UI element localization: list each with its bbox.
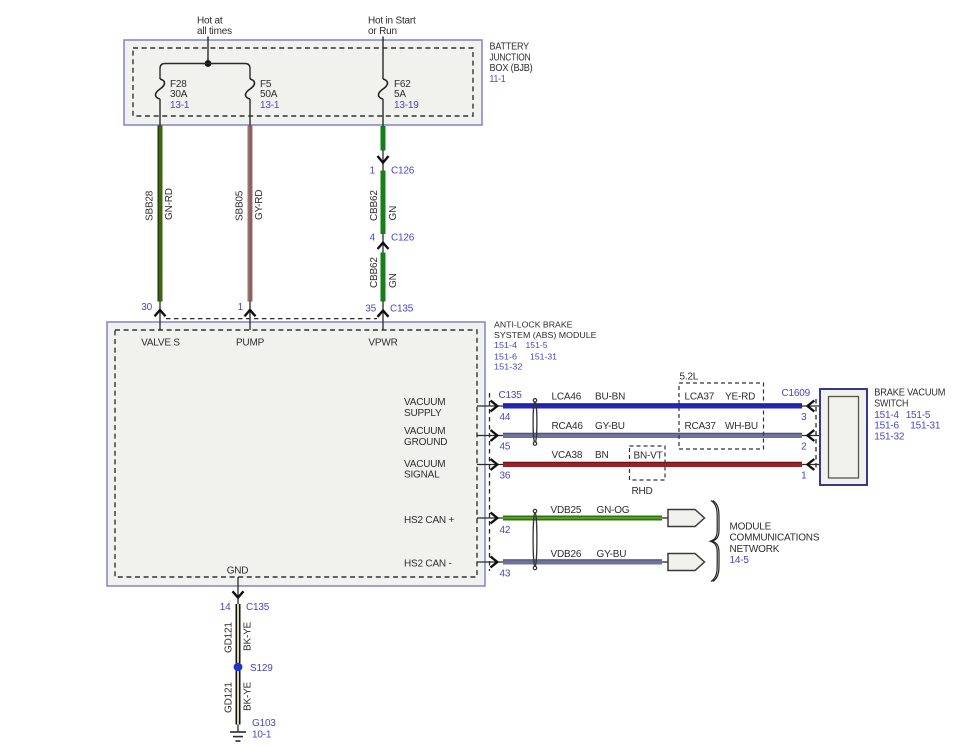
svg-text:BK-YE: BK-YE <box>243 621 254 651</box>
SECTION: top feeds <box>107 16 597 587</box>
wire fuse F62 output <box>382 99 384 126</box>
svg-text:43: 43 <box>500 569 511 580</box>
svg-text:42: 42 <box>500 525 511 536</box>
wire VDB25 GN-OG <box>503 505 662 518</box>
SECTION: brake vacuum switch <box>782 388 946 486</box>
wire GD121 BK-YE upper segment <box>224 604 254 663</box>
wire CBB62 GN middle segment <box>369 171 399 235</box>
svg-text:BU-BN: BU-BN <box>595 392 625 403</box>
svg-text:HS2 CAN -: HS2 CAN - <box>404 559 452 570</box>
svg-text:PUMP: PUMP <box>236 338 265 349</box>
svg-text:10-1: 10-1 <box>252 730 272 741</box>
svg-text:13-1: 13-1 <box>260 100 280 111</box>
pin label VACUUM SIGNAL <box>404 459 445 481</box>
svg-text:151-4: 151-4 <box>494 341 518 350</box>
svg-text:151-4: 151-4 <box>874 410 899 421</box>
svg-text:4: 4 <box>370 233 376 244</box>
svg-text:YE-RD: YE-RD <box>725 392 755 403</box>
fuse F28 <box>155 79 189 111</box>
svg-text:LCA37: LCA37 <box>685 392 715 403</box>
svg-text:BN-VT: BN-VT <box>634 450 663 461</box>
wire CBB62 GN upper segment <box>381 126 386 151</box>
box ANTI-LOCK BRAKE SYSTEM (ABS) MODULE <box>107 322 485 586</box>
ground G103 <box>230 718 276 741</box>
SECTION: ABS module <box>107 16 597 587</box>
svg-text:3: 3 <box>801 412 807 423</box>
svg-text:GN-RD: GN-RD <box>164 188 175 220</box>
svg-text:HS2 CAN +: HS2 CAN + <box>404 515 455 526</box>
pin 3 arrow into switch <box>801 401 828 424</box>
svg-text:SBB28: SBB28 <box>145 190 156 221</box>
pin 14 arrow out of ABS module C135 <box>220 577 270 613</box>
svg-text:GD121: GD121 <box>224 682 235 713</box>
svg-text:VACUUM: VACUUM <box>404 426 445 437</box>
wire SBB05 GY-RD <box>235 126 266 302</box>
svg-text:5.2L: 5.2L <box>680 372 699 383</box>
pin 43 arrow out of ABS module <box>477 557 511 580</box>
svg-text:Hot in Start: Hot in Start <box>368 16 416 27</box>
svg-text:151-5: 151-5 <box>906 410 931 421</box>
svg-text:151-31: 151-31 <box>530 352 558 361</box>
svg-text:GN: GN <box>388 273 399 288</box>
svg-text:BN: BN <box>595 450 609 461</box>
svg-text:CBB62: CBB62 <box>369 190 380 221</box>
svg-text:C1609: C1609 <box>782 388 811 399</box>
svg-text:all times: all times <box>197 26 232 37</box>
wire fuse F28 output <box>159 99 161 126</box>
SECTION: ground path <box>220 577 277 741</box>
fuse F62 <box>378 79 419 111</box>
svg-text:C126: C126 <box>391 166 415 177</box>
svg-text:151-32: 151-32 <box>874 432 905 443</box>
wire VDB26 GY-BU <box>503 549 662 562</box>
svg-text:GY-RD: GY-RD <box>254 190 265 220</box>
label Hot at all times <box>197 16 232 38</box>
SECTION: vertical wires <box>145 16 417 302</box>
pin label VACUUM GROUND <box>404 426 447 448</box>
twisted pair loop VDB25/VDB26 <box>533 509 537 569</box>
svg-text:COMMUNICATIONS: COMMUNICATIONS <box>730 533 820 544</box>
pin 42 arrow out of ABS module <box>477 513 511 537</box>
svg-text:36: 36 <box>500 471 511 482</box>
svg-text:30A: 30A <box>170 89 188 100</box>
svg-text:VALVE S: VALVE S <box>141 338 180 349</box>
svg-text:1: 1 <box>238 302 244 313</box>
node junction dot <box>205 60 212 67</box>
svg-text:GN-OG: GN-OG <box>597 505 630 516</box>
svg-text:45: 45 <box>500 442 511 453</box>
svg-text:VCA38: VCA38 <box>552 450 583 461</box>
fuse F5 <box>245 79 279 111</box>
svg-text:1: 1 <box>370 166 376 177</box>
box BRAKE VACUUM SWITCH <box>820 389 867 485</box>
svg-text:GN: GN <box>388 206 399 221</box>
svg-text:VACUUM: VACUUM <box>404 459 445 470</box>
svg-text:50A: 50A <box>260 89 278 100</box>
svg-text:GND: GND <box>227 566 249 577</box>
svg-text:NETWORK: NETWORK <box>730 544 780 555</box>
pin 35 arrow into ABS module C135 <box>365 301 413 330</box>
box 5.2L alternate wires <box>679 372 764 449</box>
box BN-VT alternate wire RHD <box>630 446 666 497</box>
svg-text:151-6: 151-6 <box>494 352 518 361</box>
wire bus to fuses F28 and F5 <box>160 64 250 80</box>
svg-text:VPWR: VPWR <box>368 338 397 349</box>
svg-text:151-31: 151-31 <box>910 421 941 432</box>
svg-text:SYSTEM (ABS) MODULE: SYSTEM (ABS) MODULE <box>494 331 597 340</box>
pin 36 arrow out of ABS module <box>477 459 511 482</box>
svg-text:GD121: GD121 <box>224 622 235 653</box>
connector C135 top pins dashed line <box>166 318 377 320</box>
off-page connector HS2 CAN + <box>662 510 705 527</box>
svg-text:SWITCH: SWITCH <box>874 398 908 409</box>
connector C1609 dashed line <box>815 399 817 471</box>
svg-text:VACUUM: VACUUM <box>404 397 445 408</box>
svg-text:BATTERY: BATTERY <box>490 41 530 52</box>
connector C126 pin 4 <box>370 233 415 254</box>
pin label VACUUM SUPPLY <box>404 397 445 419</box>
off-page connector HS2 CAN - <box>662 554 705 571</box>
svg-text:ANTI-LOCK BRAKE: ANTI-LOCK BRAKE <box>494 321 573 330</box>
svg-text:C126: C126 <box>391 233 415 244</box>
svg-text:CBB62: CBB62 <box>369 257 380 288</box>
svg-text:BOX (BJB): BOX (BJB) <box>490 63 533 74</box>
svg-text:14: 14 <box>220 602 231 613</box>
svg-text:or Run: or Run <box>368 26 397 37</box>
splice S129 <box>234 663 274 674</box>
svg-text:13-19: 13-19 <box>394 100 419 111</box>
wire VCA38 BN <box>503 450 802 464</box>
wire from Hot at all times <box>207 37 209 64</box>
svg-text:151-5: 151-5 <box>526 341 549 350</box>
svg-text:MODULE: MODULE <box>730 522 772 533</box>
wire SBB28 GN-RD <box>145 126 176 302</box>
svg-text:S129: S129 <box>250 663 273 674</box>
pin 2 arrow into switch <box>801 430 828 453</box>
connector C126 pin 1 <box>370 150 415 177</box>
svg-text:VDB25: VDB25 <box>551 505 582 516</box>
wire LCA46 BU-BN <box>503 392 802 406</box>
SECTION: CAN network <box>477 501 820 582</box>
svg-text:RCA37: RCA37 <box>685 421 717 432</box>
pin 44 arrow out of ABS module <box>477 390 522 423</box>
svg-text:VDB26: VDB26 <box>551 549 582 560</box>
svg-text:30: 30 <box>141 302 152 313</box>
svg-text:G103: G103 <box>252 718 276 729</box>
svg-text:1: 1 <box>801 471 807 482</box>
twisted pair loop LCA46/RCA46 <box>533 399 537 446</box>
wire CBB62 GN lower segment <box>369 253 399 302</box>
svg-text:JUNCTION: JUNCTION <box>490 52 531 63</box>
svg-text:Hot at: Hot at <box>197 16 223 27</box>
SECTION: battery junction box <box>107 16 597 587</box>
box BATTERY JUNCTION BOX (BJB) <box>124 40 482 125</box>
wire GD121 BK-YE lower segment <box>224 671 254 725</box>
pin 1 arrow into ABS module <box>238 301 256 330</box>
svg-text:SIGNAL: SIGNAL <box>404 470 440 481</box>
pin 1 arrow into switch <box>801 459 828 482</box>
svg-text:SUPPLY: SUPPLY <box>404 408 442 419</box>
svg-text:C135: C135 <box>390 304 414 315</box>
svg-text:151-32: 151-32 <box>494 362 523 371</box>
svg-text:5A: 5A <box>394 89 406 100</box>
svg-text:C135: C135 <box>246 602 270 613</box>
svg-text:13-1: 13-1 <box>170 100 190 111</box>
svg-text:151-6: 151-6 <box>874 421 899 432</box>
wire from Hot in Start or Run <box>382 37 384 80</box>
svg-text:14-5: 14-5 <box>730 555 750 566</box>
svg-text:44: 44 <box>500 412 511 423</box>
svg-text:SBB05: SBB05 <box>235 190 246 221</box>
svg-text:GY-BU: GY-BU <box>597 549 627 560</box>
connector C135 right side dashed line <box>489 393 491 571</box>
svg-text:2: 2 <box>801 442 807 453</box>
svg-text:RHD: RHD <box>632 486 653 497</box>
svg-text:WH-BU: WH-BU <box>725 421 758 432</box>
label Hot in Start or Run <box>368 16 416 38</box>
wire RCA46 GY-BU <box>503 421 802 435</box>
brace module communications network <box>710 501 719 582</box>
pin 45 arrow out of ABS module <box>477 430 511 453</box>
pin 30 arrow into ABS module <box>141 301 165 330</box>
SECTION: right wires <box>477 372 802 497</box>
svg-text:RCA46: RCA46 <box>552 421 584 432</box>
label MODULE COMMUNICATIONS NETWORK <box>730 522 820 567</box>
svg-text:LCA46: LCA46 <box>552 392 582 403</box>
svg-text:11-1: 11-1 <box>490 74 507 85</box>
svg-text:BK-YE: BK-YE <box>243 681 254 711</box>
wire fuse F5 output <box>249 99 251 126</box>
svg-text:35: 35 <box>365 304 376 315</box>
svg-text:GROUND: GROUND <box>404 437 447 448</box>
svg-text:GY-BU: GY-BU <box>595 421 625 432</box>
svg-text:C135: C135 <box>499 390 523 401</box>
svg-text:BRAKE VACUUM: BRAKE VACUUM <box>874 388 945 399</box>
